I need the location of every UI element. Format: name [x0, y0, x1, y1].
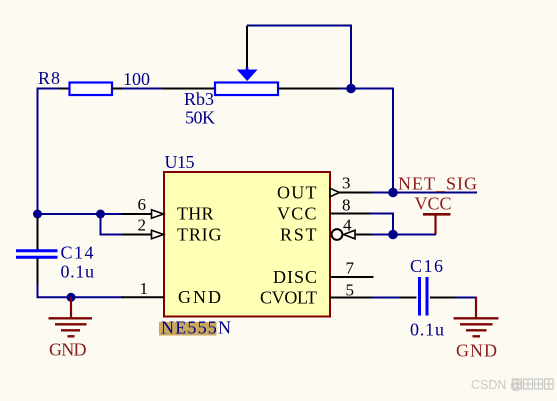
ground symbol right [454, 297, 499, 337]
label R8 [38, 68, 60, 88]
pin lead Rb3 pin3 [278, 88, 340, 90]
svg-text:VCC: VCC [277, 204, 317, 224]
net label GND left [49, 340, 87, 360]
wire: node A to pin 6 [38, 213, 124, 215]
svg-text:GND: GND [178, 287, 221, 307]
pin name TRIG [177, 225, 222, 245]
wire: wiper feedback loop [247, 26, 351, 89]
pin name RST [280, 225, 317, 245]
value label 0.1u (C16) [410, 320, 444, 340]
svg-text:0.1u: 0.1u [61, 262, 95, 282]
svg-text:GND: GND [456, 341, 497, 361]
wire: pin 4 to VCC [371, 234, 436, 236]
svg-text:CSDN @: CSDN @ [471, 378, 523, 392]
svg-text:2: 2 [138, 216, 147, 235]
pin lead U15 pin 1 [122, 296, 164, 298]
value label 50K [185, 108, 215, 128]
pin number 8 [342, 196, 351, 215]
watermark CSDN [471, 378, 553, 392]
net label GND right [456, 341, 497, 361]
svg-text:1: 1 [140, 279, 149, 298]
svg-text:6: 6 [138, 195, 147, 214]
svg-text:TRIG: TRIG [177, 225, 222, 245]
potentiometer Rb3 body [215, 83, 278, 96]
svg-text:U15: U15 [165, 152, 195, 172]
svg-text:R8: R8 [38, 68, 60, 88]
pin name CVOLT [260, 288, 317, 308]
pin number 1 [140, 279, 149, 298]
pin number 2 [138, 216, 147, 235]
net label NET_SIG [398, 174, 477, 194]
pin number 7 [346, 259, 355, 278]
junction THR/TRIG split [96, 210, 105, 219]
wire: split down to pin 2 [101, 214, 124, 235]
label Rb3 [184, 89, 214, 109]
wire: Rb3 right to vertical drop [339, 89, 393, 193]
label NE555N highlight [159, 318, 231, 338]
pin name THR [177, 204, 214, 224]
svg-text:8: 8 [342, 196, 351, 215]
svg-text:RST: RST [280, 225, 317, 245]
svg-text:3: 3 [342, 174, 351, 193]
pin lead Rb3 pin1 [162, 88, 216, 90]
value label 0.1u (C14) [61, 262, 95, 282]
pin name GND [178, 287, 221, 307]
pin number 6 [138, 195, 147, 214]
pin number 4 [343, 216, 352, 235]
pin lead U15 pin 6 [122, 210, 164, 218]
capacitor C16 lead left [399, 297, 417, 299]
svg-text:C14: C14 [61, 243, 94, 263]
svg-text:OUT: OUT [277, 183, 317, 203]
junction pin4 / pin8 net [388, 230, 398, 240]
pin number 3 [342, 174, 351, 193]
capacitor C16 plates [420, 277, 428, 316]
pin lead U15 pin 7 (unconnected) [330, 276, 374, 278]
wire: pin 3 to NET_SIG [371, 192, 477, 194]
value label 100 [123, 69, 150, 89]
junction: loop meets output wire [346, 84, 356, 94]
pin lead U15 pin 8 [330, 213, 371, 215]
label U15 [165, 152, 195, 172]
capacitor C14 lead upper [37, 217, 39, 250]
label C14 [61, 243, 94, 263]
junction pin3 / feedback [388, 188, 398, 198]
pin lead U15 pin 2 [122, 230, 164, 238]
pin name OUT [277, 183, 317, 203]
label C16 [410, 256, 443, 276]
svg-text:NET_SIG: NET_SIG [398, 174, 477, 194]
Rb3 wiper arrow [237, 67, 258, 81]
junction GND tap [67, 293, 76, 302]
svg-text:VCC: VCC [415, 194, 452, 214]
pin lead U15 pin 3 with output arrow [330, 188, 372, 196]
wire: C14 bottom to pin 1 [38, 285, 124, 297]
node A junction (left vertical meets THR net) [33, 210, 42, 219]
svg-text:NE555N: NE555N [161, 318, 231, 338]
wire: pin 8 down to RST net [370, 214, 393, 235]
ground symbol left [49, 297, 93, 336]
pin lead U15 pin 4 with inversion bubble and arrow [332, 229, 372, 240]
svg-text:THR: THR [177, 204, 214, 224]
pin lead R8 pin2 [112, 88, 123, 90]
svg-text:C16: C16 [410, 256, 443, 276]
wire: C16 to ground corner [455, 297, 477, 299]
svg-text:50K: 50K [185, 108, 215, 128]
pin lead R8 pin1 [59, 88, 70, 90]
capacitor C14 plates [16, 251, 58, 258]
op-amp U15 body (NE555 IC) [164, 172, 330, 317]
wire: pin 5 to C16 [372, 297, 400, 299]
pin lead U15 pin 5 [330, 297, 373, 299]
svg-text:GND: GND [49, 340, 87, 360]
pin number 5 [346, 281, 355, 300]
svg-text:7: 7 [346, 259, 355, 278]
svg-text:Rb3: Rb3 [184, 89, 214, 109]
resistor R8 [70, 83, 113, 96]
svg-text:CVOLT: CVOLT [260, 288, 317, 308]
svg-text:0.1u: 0.1u [410, 320, 444, 340]
capacitor C14 lead lower [37, 259, 39, 287]
power symbol VCC [423, 214, 451, 234]
pin name VCC [277, 204, 317, 224]
net label VCC [415, 194, 452, 214]
Rb3 wiper pin lead [246, 26, 248, 68]
svg-text:DISC: DISC [273, 267, 317, 287]
pin name DISC [273, 267, 317, 287]
wire: R8 to Rb3 [122, 88, 163, 90]
svg-text:100: 100 [123, 69, 150, 89]
capacitor C16 lead right [430, 297, 456, 299]
wire: R8 left corner down to node A [38, 89, 61, 215]
